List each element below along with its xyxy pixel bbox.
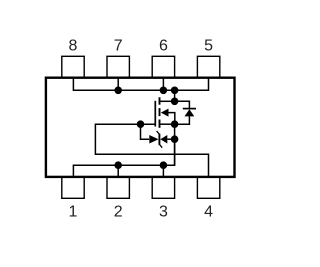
wire drain branch down xyxy=(174,90,176,101)
diode D1 body diode cathode bar xyxy=(183,108,196,110)
pin 5 pad xyxy=(197,56,219,77)
node source junction xyxy=(171,120,179,128)
pin 3 pad xyxy=(152,177,174,198)
transistor Q1 channel segment drain xyxy=(159,97,161,104)
wire ESD right to source column xyxy=(167,138,174,140)
wire pin 2 stub xyxy=(117,165,119,177)
wire source rail (pins 1,2,3) xyxy=(73,139,174,177)
junction pin 3 / rail xyxy=(160,161,168,169)
IC body outline xyxy=(46,78,235,177)
pin 7 pad xyxy=(107,56,129,77)
transistor Q1 gate bar xyxy=(154,101,156,127)
pin 4 pad xyxy=(197,177,219,198)
diode D2 ESD zener bottom tail xyxy=(160,145,163,148)
svg-text:5: 5 xyxy=(204,38,213,55)
svg-text:4: 4 xyxy=(204,204,213,221)
wire ESD branch from gate xyxy=(141,124,150,139)
svg-text:3: 3 xyxy=(159,204,168,221)
wire drain stub to channel xyxy=(160,100,175,102)
svg-text:6: 6 xyxy=(159,38,168,55)
diode D2 ESD left triangle xyxy=(149,135,158,144)
wire gate loop (pin 4 to gate) xyxy=(95,124,208,177)
transistor Q1 body arrow xyxy=(161,109,169,117)
node drain junction xyxy=(171,98,179,106)
junction ESD diode / source column xyxy=(171,135,179,143)
wire source stub xyxy=(160,123,175,125)
svg-text:1: 1 xyxy=(69,204,78,221)
diode D2 ESD zener top tail xyxy=(157,131,160,134)
svg-text:2: 2 xyxy=(114,204,123,221)
wire pin 6 stub xyxy=(162,78,164,91)
wire pin 7 stub xyxy=(117,78,119,91)
junction pin 2 / rail xyxy=(114,161,122,169)
wire drain to body-diode cathode xyxy=(175,101,190,108)
wire body-diode anode to source xyxy=(175,116,190,124)
diode D1 body diode triangle xyxy=(185,109,195,116)
pin 6 pad xyxy=(152,56,174,77)
junction pin 6 / rail xyxy=(160,87,168,95)
junction pin 7 / rail xyxy=(114,87,122,95)
wire drain rail (pins 8,7,6,5) xyxy=(73,78,208,91)
pin 8 pad xyxy=(62,56,84,77)
junction drain branch / rail xyxy=(171,87,179,95)
wire body stub to source xyxy=(168,113,175,122)
wire pin 3 stub xyxy=(162,165,164,177)
diode D2 ESD zener bar xyxy=(158,134,160,145)
transistor Q1 channel segment source xyxy=(159,120,161,128)
wire source column down xyxy=(174,124,176,165)
transistor Q1 channel segment body xyxy=(159,108,161,116)
svg-text:8: 8 xyxy=(69,38,78,55)
pin 2 pad xyxy=(107,177,129,198)
pin 1 pad xyxy=(62,177,84,198)
svg-text:7: 7 xyxy=(114,38,123,55)
junction gate / ESD branch xyxy=(137,120,145,128)
diode D2 ESD right triangle xyxy=(160,135,167,144)
